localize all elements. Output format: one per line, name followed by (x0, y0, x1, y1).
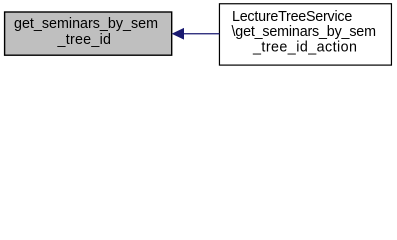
svg-text:LectureTreeService: LectureTreeService (232, 9, 352, 25)
svg-text:_tree_id: _tree_id (57, 32, 112, 48)
svg-text:get_seminars_by_sem: get_seminars_by_sem (14, 16, 158, 32)
svg-text:\get_seminars_by_sem: \get_seminars_by_sem (232, 24, 377, 40)
svg-text:_tree_id_action: _tree_id_action (252, 40, 357, 56)
